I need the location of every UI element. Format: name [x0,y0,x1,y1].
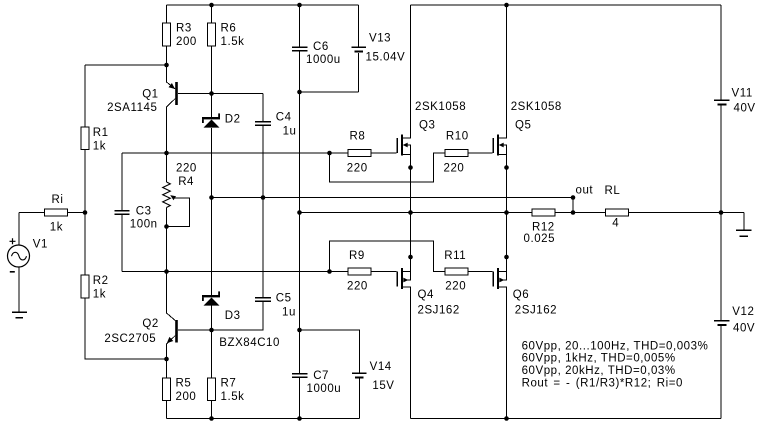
wire Q5 source column [498,145,507,213]
resistor R9 [348,268,371,275]
svg-text:V13: V13 [369,33,391,45]
svg-text:220: 220 [347,281,368,293]
resistor RL [606,209,629,216]
battery V13 [352,47,367,51]
wire R4 top lead [166,153,168,182]
svg-text:1k: 1k [50,221,63,233]
potentiometer R4 wiper arrow [170,195,176,200]
svg-text:1k: 1k [93,141,106,153]
wire V1 to Ri [19,212,45,214]
wire mid column lower [299,213,301,331]
svg-text:60Vpp, 20...100Hz, THD=0,003%: 60Vpp, 20...100Hz, THD=0,003% [522,340,709,352]
wire C4 bottom lead [262,126,264,198]
svg-text:out: out [576,185,594,197]
wire R8 left lead [330,152,349,154]
node Q2 emitter feedback [164,357,169,362]
resistor R7 [208,378,216,401]
node Q6 source top [504,255,509,260]
wire node to R1 branch [85,65,167,127]
svg-text:Q5: Q5 [515,120,531,132]
node C7 bottom [297,416,302,421]
wire right ground lead [743,213,745,231]
svg-text:V11: V11 [732,87,753,99]
svg-text:R6: R6 [221,22,237,34]
resistor R1 [81,127,89,150]
node C6 V13 [297,90,302,95]
capacitor C7 [292,374,308,377]
wire D2 to D3 column [211,128,213,295]
wire V14 bottom lead [359,379,361,419]
wire R10 to Q5 gate [468,152,493,154]
resistor R2 [81,275,89,298]
svg-text:2SK1058: 2SK1058 [511,101,562,113]
node Q5 source [504,165,509,170]
wire Q2 emitter lead [167,336,176,379]
svg-text:R4: R4 [178,176,194,188]
ground under V1 [12,312,27,317]
wire bottom supply rail [411,418,722,420]
wire top bias rail [167,4,359,6]
wire R4 bottom to Q2 collector [167,208,176,321]
source V1 [8,238,30,271]
resistor R5 [163,378,171,401]
wire V13 top lead [358,5,360,47]
svg-text:60Vpp, 1kHz, THD=0,005%: 60Vpp, 1kHz, THD=0,005% [522,353,676,365]
node R4 wiper [164,224,169,229]
wire C3 top lead [121,153,123,211]
wire C6 bottom lead [299,52,301,93]
wire RL to supply mid [629,212,745,214]
mosfet Q5 [493,135,498,156]
node out rail left [297,210,302,215]
wire R11 feed bracket [330,241,446,272]
svg-text:40V: 40V [734,103,756,115]
wire V11 bottom lead [720,106,722,213]
wire Q6 source column [498,213,507,281]
node Q5 Q6 sources out [504,210,509,215]
resistor R10 [445,150,468,157]
wire R12 to RL [555,212,606,214]
node mid rail end [571,195,576,200]
capacitor C6 [292,47,308,51]
wire Q1 collector lead [167,99,176,154]
wire C7 bottom lead [299,378,301,419]
mosfet Q4 [397,268,402,289]
svg-text:D2: D2 [225,113,241,125]
wire C5 bottom to Q2 base [212,302,264,331]
wire V14 top branch [300,330,360,373]
wire Q3 drain column [402,5,411,138]
svg-text:Q3: Q3 [419,120,435,132]
svg-text:0.025: 0.025 [524,233,556,245]
node top C6 [297,3,302,8]
svg-text:1.5k: 1.5k [221,391,245,403]
svg-text:1000u: 1000u [306,54,341,66]
node top R6 [209,3,214,8]
wire Q6 drain column [498,287,507,419]
wire V11 top lead [720,5,722,100]
wire R10 feed bracket [330,153,446,182]
svg-text:1u: 1u [283,125,297,137]
wire upper gate rail [122,152,330,154]
resistor Ri [45,209,68,216]
svg-text:60Vpp, 20kHz, THD=0,03%: 60Vpp, 20kHz, THD=0,03% [522,365,676,377]
node Q4 source top [408,255,413,260]
node gate drive upper [327,151,332,156]
wire Q3 source column [402,145,411,213]
wire C7 top lead [299,330,301,374]
svg-text:40V: 40V [733,322,755,334]
wire bottom left bias rail [167,418,360,420]
svg-text:BZX84C10: BZX84C10 [219,337,280,349]
wire top supply rail [411,4,722,6]
svg-text:200: 200 [176,36,197,48]
svg-text:Ri: Ri [52,194,64,206]
resistor R3 [163,23,171,46]
node R3 R1 emitter [164,63,169,68]
svg-text:R8: R8 [350,131,366,143]
svg-text:R7: R7 [221,377,237,389]
wire Q1 emitter lead [167,65,176,89]
wire V1 top lead [18,213,20,246]
resistor R11 [445,268,468,275]
ground right [736,230,752,236]
resistor R6 [208,23,216,46]
svg-text:C4: C4 [276,111,292,123]
battery V14 [352,373,367,377]
wire out rail to R12 [300,212,533,214]
svg-text:2SJ162: 2SJ162 [418,305,460,317]
svg-text:220: 220 [445,280,466,292]
svg-text:R10: R10 [446,131,469,143]
capacitor C5 [255,298,271,301]
svg-text:1k: 1k [93,289,106,301]
node R7 bottom [209,416,214,421]
node gate drive lower [327,269,332,274]
node C7 V14 top [297,328,302,333]
wire R3 bottom to node [166,46,168,65]
mosfet Q6 [493,268,498,289]
svg-text:2SJ162: 2SJ162 [515,305,557,317]
wire R2 top lead [84,213,86,276]
mosfet Q3 [397,135,402,156]
node Q1 collector R4 [164,151,169,156]
wire R11 to Q6 gate [468,271,493,273]
svg-text:4: 4 [612,218,619,230]
svg-text:Rout = - (R1/R3)*R12; Ri=0: Rout = - (R1/R3)*R12; Ri=0 [522,378,683,390]
svg-text:Q4: Q4 [418,289,434,301]
wire R9 left lead [330,271,349,273]
node Q1 base [209,91,214,96]
wire C4 top lead [262,94,264,122]
svg-text:15V: 15V [372,380,394,392]
svg-text:D3: D3 [225,310,241,322]
wire R2 bottom feedback [85,298,167,359]
node C4 C5 mid [261,195,266,200]
zener diode D3 [202,291,220,305]
svg-text:2SK1058: 2SK1058 [415,101,466,113]
svg-text:R12: R12 [532,221,555,233]
wire V12 top lead [720,213,722,321]
wire R6 top lead [211,5,213,23]
node Q6 drain bottom [504,416,509,421]
svg-text:Q1: Q1 [142,89,158,101]
wire out node drop [572,198,574,213]
wire mid column upper [299,92,301,213]
resistor R12 [532,209,555,216]
wire C5 top lead [262,198,264,298]
battery V12 [714,321,730,325]
wire Q4 drain column [402,287,411,419]
wire lower gate rail [122,271,330,273]
svg-text:R11: R11 [444,250,466,262]
svg-text:V12: V12 [732,306,754,318]
wire R3 top lead [166,5,168,23]
svg-text:Q2: Q2 [142,318,158,330]
svg-text:220: 220 [347,163,368,175]
svg-text:C5: C5 [276,292,292,304]
node Q3 Q4 sources out [408,210,413,215]
svg-text:2SA1145: 2SA1145 [107,102,157,114]
node D2 D3 mid [209,195,214,200]
zener diode D2 [202,113,220,127]
svg-text:1000u: 1000u [307,383,342,395]
svg-text:C3: C3 [136,205,152,217]
wire R7 bottom lead [211,401,213,419]
wire Q1 base rail [178,93,263,95]
svg-text:R3: R3 [176,22,192,34]
transistor Q2 [167,320,178,343]
wire Q2 base lead [178,329,212,331]
svg-text:220: 220 [176,162,197,174]
wire V13 bottom lead [358,53,360,92]
wire V12 bottom lead [720,326,722,419]
wire Ri to input node [68,212,86,214]
wire R6 bottom to D2 [211,46,213,117]
battery V11 [714,100,730,104]
wire R8 to Q3 gate [371,152,397,154]
svg-text:1u: 1u [282,306,296,318]
svg-text:100n: 100n [130,218,158,230]
svg-text:R2: R2 [93,275,109,287]
node R4 bottom rail [164,269,169,274]
svg-text:2SC2705: 2SC2705 [104,333,156,345]
wire mid bias rail [212,197,574,199]
svg-text:15.04V: 15.04V [366,52,406,64]
svg-text:1.5k: 1.5k [221,36,245,48]
capacitor C4 [255,122,271,125]
node Q2 base [209,328,214,333]
wire C6 V13 loop [300,91,359,93]
svg-text:R1: R1 [93,127,109,139]
capacitor C3 [115,211,130,215]
node input [83,210,88,215]
node top Q5 drain [504,3,509,8]
node Q3 source [408,165,413,170]
node out [571,210,576,215]
resistor R8 [348,150,371,157]
node supply mid [719,210,724,215]
wire R9 to Q4 gate [371,271,397,273]
svg-text:200: 200 [176,391,197,403]
svg-text:V1: V1 [33,239,48,251]
wire R1 bottom lead [84,150,86,213]
svg-text:RL: RL [605,185,621,197]
wire C3 bottom lead [121,215,123,272]
wire Q4 source column [402,213,411,281]
wire R5 bottom lead [166,401,168,419]
svg-text:R5: R5 [176,377,192,389]
svg-text:C7: C7 [313,370,329,382]
svg-text:C6: C6 [313,41,329,53]
wire R4 wiper loop [167,198,190,227]
wire V1 bottom lead [18,267,20,312]
wire Q5 drain column [498,5,507,138]
transistor Q1 [169,82,178,105]
svg-text:R9: R9 [349,250,365,262]
wire C6 top lead [299,5,301,47]
svg-text:V14: V14 [370,361,392,373]
potentiometer R4 [163,182,171,208]
svg-text:Q6: Q6 [513,289,529,301]
wire D3 to R7 column [211,305,213,378]
svg-text:220: 220 [444,163,465,175]
